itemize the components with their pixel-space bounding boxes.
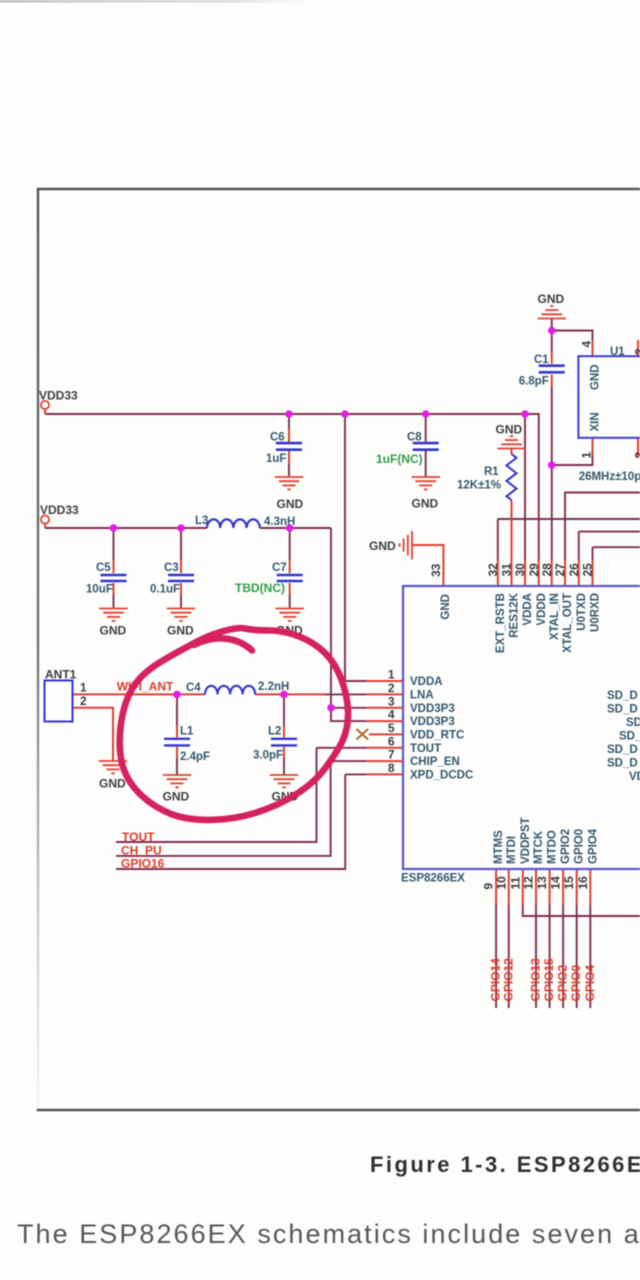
svg-text:GPIO0: GPIO0	[574, 829, 586, 864]
svg-text:C5: C5	[96, 562, 111, 574]
svg-text:6.8pF: 6.8pF	[519, 376, 549, 388]
svg-text:SD_D: SD_D	[607, 704, 638, 716]
svg-text:1uF(NC): 1uF(NC)	[376, 452, 423, 466]
svg-text:U0TXD: U0TXD	[576, 593, 588, 631]
svg-text:L3: L3	[195, 515, 208, 527]
svg-text:C6: C6	[270, 432, 285, 444]
svg-text:GND: GND	[369, 539, 396, 553]
svg-text:XIN: XIN	[590, 412, 602, 431]
svg-text:25: 25	[581, 563, 595, 577]
svg-text:GPIO16: GPIO16	[121, 857, 165, 871]
svg-text:GND: GND	[538, 292, 565, 306]
svg-text:28: 28	[540, 563, 554, 577]
svg-text:MTMS: MTMS	[493, 830, 505, 864]
svg-text:11: 11	[508, 876, 522, 889]
svg-text:30: 30	[513, 563, 527, 577]
svg-text:15: 15	[562, 876, 576, 890]
svg-text:CH_PU: CH_PU	[121, 844, 162, 858]
svg-text:SD_D: SD_D	[607, 758, 638, 770]
svg-text:GPIO0: GPIO0	[569, 964, 583, 1001]
svg-text:SD_D: SD_D	[607, 744, 638, 756]
svg-text:31: 31	[499, 563, 513, 577]
svg-text:1: 1	[388, 668, 395, 682]
svg-text:EXT_RSTB: EXT_RSTB	[495, 593, 507, 653]
svg-text:2: 2	[80, 694, 87, 708]
svg-text:L2: L2	[268, 726, 281, 738]
svg-text:13: 13	[535, 876, 549, 890]
svg-text:8: 8	[388, 761, 395, 775]
svg-text:VDDA: VDDA	[522, 593, 534, 626]
svg-text:33: 33	[429, 563, 443, 577]
svg-text:GND: GND	[99, 777, 126, 791]
svg-text:VD: VD	[629, 771, 640, 783]
svg-text:4.3nH: 4.3nH	[264, 516, 295, 528]
svg-text:CHIP_EN: CHIP_EN	[410, 756, 460, 768]
svg-text:TOUT: TOUT	[122, 830, 155, 844]
svg-text:ANT1: ANT1	[45, 668, 77, 682]
svg-text:VDD3P3: VDD3P3	[410, 703, 455, 715]
svg-text:VDD33: VDD33	[39, 389, 78, 403]
svg-text:16: 16	[576, 876, 590, 890]
svg-text:C4: C4	[186, 682, 201, 694]
svg-text:GPIO12: GPIO12	[501, 958, 515, 1002]
svg-text:MTDI: MTDI	[506, 836, 518, 864]
svg-text:1: 1	[80, 681, 87, 695]
svg-text:VDDA: VDDA	[410, 676, 443, 688]
svg-text:29: 29	[527, 563, 541, 577]
svg-text:RES12K: RES12K	[508, 592, 520, 637]
svg-text:MTCK: MTCK	[533, 830, 545, 864]
svg-text:1: 1	[580, 452, 594, 459]
svg-text:14: 14	[549, 876, 563, 890]
svg-text:27: 27	[553, 563, 567, 577]
svg-text:12: 12	[522, 876, 536, 890]
svg-text:MTDO: MTDO	[547, 830, 559, 864]
svg-text:4: 4	[388, 708, 395, 722]
svg-text:GPIO4: GPIO4	[583, 964, 597, 1001]
svg-text:GPIO2: GPIO2	[556, 964, 570, 1001]
svg-text:VDD33: VDD33	[40, 503, 79, 517]
svg-text:GPIO4: GPIO4	[587, 828, 599, 864]
svg-text:GND: GND	[412, 497, 439, 511]
svg-text:0.1uF: 0.1uF	[150, 584, 180, 596]
svg-text:VDD_RTC: VDD_RTC	[410, 729, 464, 741]
svg-text:GND: GND	[167, 624, 194, 638]
svg-text:C3: C3	[164, 562, 179, 574]
svg-text:XTAL_IN: XTAL_IN	[549, 593, 561, 640]
svg-text:GND: GND	[100, 624, 127, 638]
svg-text:5: 5	[388, 721, 395, 735]
svg-text:2: 2	[633, 452, 640, 459]
svg-text:GPIO15: GPIO15	[542, 958, 556, 1002]
svg-text:12K±1%: 12K±1%	[457, 480, 501, 492]
svg-text:C7: C7	[272, 562, 287, 574]
svg-text:GPIO13: GPIO13	[529, 958, 543, 1002]
svg-text:10uF: 10uF	[86, 584, 113, 596]
svg-text:XTAL_OUT: XTAL_OUT	[562, 593, 574, 653]
svg-text:26MHz±10p: 26MHz±10p	[579, 471, 640, 483]
svg-text:SD_: SD_	[619, 731, 640, 743]
svg-text:32: 32	[486, 563, 500, 577]
svg-text:SD_D: SD_D	[607, 690, 638, 702]
svg-text:C1: C1	[534, 354, 549, 366]
svg-text:LNA: LNA	[410, 689, 434, 701]
svg-text:2.4pF: 2.4pF	[180, 751, 210, 763]
svg-text:3: 3	[633, 348, 640, 355]
svg-text:GND: GND	[440, 594, 452, 620]
svg-text:GPIO2: GPIO2	[560, 829, 572, 864]
svg-text:L1: L1	[180, 726, 194, 738]
svg-text:XPD_DCDC: XPD_DCDC	[410, 769, 473, 781]
svg-text:GND: GND	[496, 423, 523, 437]
svg-text:3.0pF: 3.0pF	[253, 750, 283, 762]
svg-text:WIFI_ANT: WIFI_ANT	[117, 680, 174, 694]
svg-text:6: 6	[388, 734, 395, 748]
svg-text:3: 3	[388, 694, 395, 708]
svg-text:ESP8266EX: ESP8266EX	[401, 873, 465, 885]
svg-text:7: 7	[388, 748, 395, 762]
svg-text:U1: U1	[610, 346, 625, 358]
svg-text:SD: SD	[626, 717, 640, 729]
svg-text:VDDD: VDDD	[536, 593, 548, 626]
svg-text:R1: R1	[484, 466, 499, 478]
svg-text:26: 26	[567, 563, 581, 577]
svg-text:GND: GND	[163, 790, 190, 804]
svg-text:TBD(NC): TBD(NC)	[235, 581, 285, 595]
svg-text:TOUT: TOUT	[410, 743, 441, 755]
svg-text:The ESP8266EX schematics inclu: The ESP8266EX schematics include seven a	[17, 1219, 640, 1249]
svg-text:4: 4	[580, 341, 594, 348]
svg-text:C8: C8	[407, 432, 422, 444]
svg-text:Figure 1-3. ESP8266E: Figure 1-3. ESP8266E	[370, 1152, 640, 1177]
svg-text:GND: GND	[277, 497, 304, 511]
svg-text:10: 10	[494, 876, 508, 890]
svg-text:VDDPST: VDDPST	[520, 817, 532, 864]
svg-text:GND: GND	[590, 364, 602, 390]
svg-text:VDD3P3: VDD3P3	[410, 716, 455, 728]
svg-text:2.2nH: 2.2nH	[258, 681, 289, 693]
svg-text:U0RXD: U0RXD	[590, 593, 602, 632]
svg-text:2: 2	[388, 681, 395, 695]
svg-text:1uF: 1uF	[266, 453, 286, 465]
